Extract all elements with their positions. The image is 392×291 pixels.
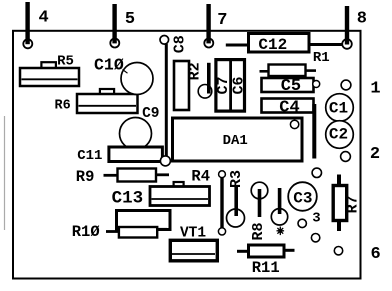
op-amp DA1: [173, 118, 303, 161]
resistor R7: [333, 175, 361, 232]
pad above C1: [341, 80, 351, 90]
svg-text:C11: C11: [77, 148, 102, 164]
pad 8: [342, 39, 352, 49]
svg-text:7: 7: [217, 11, 227, 30]
capacitor C7: [215, 60, 244, 112]
svg-text:C9: C9: [142, 106, 159, 122]
svg-text:R6: R6: [54, 98, 70, 113]
svg-text:C4: C4: [279, 98, 299, 117]
svg-text:2: 2: [370, 145, 380, 164]
svg-text:C7: C7: [215, 76, 232, 94]
resistor R6: [54, 89, 137, 113]
svg-text:6: 6: [370, 245, 380, 264]
capacitor C11: [77, 147, 170, 166]
pad below C2: [341, 152, 351, 162]
selected resistor (asterisk): [271, 188, 287, 235]
lead 5: [112, 4, 116, 43]
resistor R5: [20, 54, 79, 86]
svg-text:C5: C5: [281, 77, 301, 96]
resistor R3: [227, 170, 245, 227]
wire link: [198, 63, 212, 98]
svg-text:C1: C1: [329, 100, 348, 118]
svg-text:C6: C6: [231, 76, 248, 94]
pad 7: [204, 39, 213, 48]
pad 5: [110, 39, 119, 48]
svg-text:VT1: VT1: [180, 225, 206, 241]
svg-text:5: 5: [125, 10, 135, 29]
svg-text:DA1: DA1: [223, 133, 248, 149]
resistor R2: [174, 61, 204, 110]
transistor VT1: [170, 225, 217, 260]
lead 8: [345, 6, 349, 45]
svg-text:R7: R7: [344, 195, 361, 213]
capacitor C2: [326, 121, 354, 149]
svg-text:R8: R8: [250, 222, 267, 240]
svg-text:C2: C2: [329, 126, 348, 144]
resistor R4: [150, 168, 210, 206]
resistor R1: [260, 50, 330, 76]
capacitor C6: [231, 76, 248, 94]
lead 7: [206, 4, 210, 43]
svg-text:3: 3: [312, 211, 320, 227]
lead 4: [25, 2, 29, 44]
svg-text:R1: R1: [313, 50, 330, 66]
svg-text:4: 4: [38, 9, 48, 28]
board outline: [13, 31, 361, 279]
resistor R9: [76, 168, 169, 186]
svg-text:R4: R4: [191, 168, 210, 186]
pad right of C3 bottom: [311, 234, 319, 242]
svg-text:R1Ø: R1Ø: [72, 223, 100, 241]
scan artifact line: [4, 116, 6, 230]
svg-text:C12: C12: [258, 36, 287, 54]
svg-text:C3: C3: [293, 190, 312, 208]
capacitor C13: [112, 189, 170, 230]
capacitor C12: [226, 34, 342, 55]
svg-text:R9: R9: [76, 168, 95, 186]
svg-text:R11: R11: [252, 259, 280, 277]
capacitor C8: [160, 35, 189, 161]
svg-text:R3: R3: [228, 170, 245, 188]
pad 4: [23, 39, 32, 48]
pad below C3: [298, 219, 306, 227]
resistor R11: [237, 245, 295, 277]
capacitor C9: [120, 106, 160, 149]
svg-text:C8: C8: [172, 35, 189, 53]
resistor R10: [72, 223, 167, 241]
jumper wire: [218, 171, 225, 235]
svg-text:R2: R2: [187, 62, 204, 80]
capacitor C10: [94, 56, 153, 95]
capacitor C4: [262, 98, 315, 158]
capacitor C1: [326, 94, 354, 122]
capacitor C5: [262, 77, 320, 96]
resistor R8: [250, 182, 268, 240]
svg-text:8: 8: [357, 9, 367, 28]
svg-text:1: 1: [370, 79, 380, 98]
pad right mid: [312, 168, 321, 177]
svg-text:R5: R5: [57, 54, 74, 70]
svg-text:C13: C13: [112, 189, 144, 209]
svg-text:C1Ø: C1Ø: [94, 56, 124, 75]
pad bottom right: [334, 247, 342, 255]
capacitor C3: [288, 182, 317, 211]
